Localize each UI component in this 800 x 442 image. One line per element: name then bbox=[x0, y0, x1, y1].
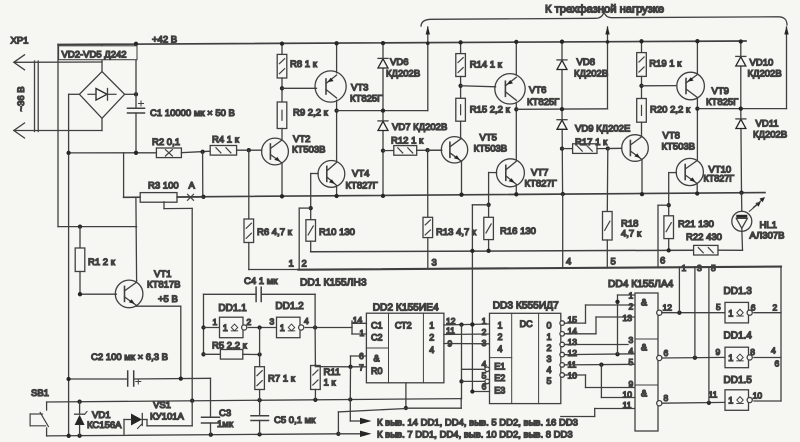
wire R3 wiper to VS1 column bbox=[163, 202, 165, 209]
svg-text:5: 5 bbox=[716, 302, 721, 312]
wire bridge bottom to XP1 bbox=[101, 118, 103, 130]
svg-text:А: А bbox=[189, 181, 196, 192]
harness r14 to DD4 pin13 bbox=[595, 317, 597, 334]
svg-text:3: 3 bbox=[629, 335, 634, 345]
wire to pin7 arrow bbox=[337, 412, 339, 434]
svg-text:DD1.4: DD1.4 bbox=[724, 331, 753, 342]
wire +42V top rail bbox=[58, 41, 746, 45]
bus wire 1 bbox=[678, 267, 680, 313]
svg-text:КТ825Г: КТ825Г bbox=[706, 97, 738, 108]
wire bridge right to +42 node bbox=[125, 93, 136, 95]
svg-text:R16 130: R16 130 bbox=[500, 226, 536, 237]
svg-text:КТ827Г: КТ827Г bbox=[704, 174, 735, 184]
svg-text:1: 1 bbox=[498, 321, 503, 331]
svg-text:1 к: 1 к bbox=[324, 378, 337, 389]
svg-text:8: 8 bbox=[664, 393, 669, 403]
svg-text:1: 1 bbox=[629, 291, 634, 301]
svg-text:DD1.1: DD1.1 bbox=[218, 303, 247, 314]
svg-text:1: 1 bbox=[289, 259, 294, 270]
svg-text:0: 0 bbox=[547, 321, 552, 331]
svg-text:1: 1 bbox=[482, 316, 487, 326]
svg-text:1: 1 bbox=[429, 321, 434, 331]
svg-text:КТ503В: КТ503В bbox=[474, 144, 508, 155]
svg-text:R1 2 к: R1 2 к bbox=[88, 257, 116, 268]
svg-text:КТ817В: КТ817В bbox=[147, 280, 181, 291]
svg-text:2: 2 bbox=[498, 332, 503, 342]
svg-text:КТ503В: КТ503В bbox=[292, 145, 326, 156]
svg-text:R14 1 к: R14 1 к bbox=[470, 60, 503, 71]
svg-text:R10 130: R10 130 bbox=[319, 227, 355, 238]
svg-text:9: 9 bbox=[716, 347, 721, 357]
svg-text:XP1: XP1 bbox=[11, 36, 29, 47]
wire VT1 emitter +5V bbox=[135, 305, 137, 308]
resistor R17 bbox=[562, 148, 573, 150]
svg-text:2: 2 bbox=[629, 302, 634, 312]
wire VT4 base node bbox=[310, 174, 312, 220]
phase arrow 1 bbox=[427, 27, 429, 111]
wire R11 to DD2 R0 pins bbox=[315, 366, 350, 368]
svg-text:9: 9 bbox=[629, 379, 634, 389]
svg-text:R15 2,2 к: R15 2,2 к bbox=[470, 105, 511, 116]
svg-text:R8 1 к: R8 1 к bbox=[290, 59, 318, 70]
svg-text:VT2: VT2 bbox=[293, 134, 310, 145]
wire R3 left up bbox=[124, 196, 141, 198]
label VD2-VD5 Д242 bbox=[59, 46, 137, 60]
svg-text:VT7: VT7 bbox=[531, 168, 548, 179]
svg-text:DD2 К155ИЕ4: DD2 К155ИЕ4 bbox=[373, 303, 439, 314]
svg-text:VD7 КД202В: VD7 КД202В bbox=[392, 122, 447, 133]
svg-text:4: 4 bbox=[429, 345, 434, 355]
svg-text:5: 5 bbox=[611, 257, 616, 268]
svg-text:R20 2,2 к: R20 2,2 к bbox=[650, 105, 691, 116]
svg-text:VT5: VT5 bbox=[480, 133, 497, 144]
svg-text:2: 2 bbox=[247, 317, 252, 327]
svg-text:1: 1 bbox=[223, 323, 228, 333]
wire DD1.1 out column bbox=[259, 328, 261, 367]
wire line1 (R10..R22 common) bbox=[311, 250, 694, 252]
svg-text:К выв. 7 DD1, DD4, выв. 10 DD2: К выв. 7 DD1, DD4, выв. 10 DD2, выв. 8 D… bbox=[377, 430, 573, 441]
svg-text:КТ827Г: КТ827Г bbox=[525, 179, 557, 190]
wire +5V row bbox=[47, 399, 461, 402]
wire net 6 vertical bbox=[657, 205, 659, 267]
svg-text:3: 3 bbox=[482, 338, 487, 348]
svg-text:1: 1 bbox=[682, 263, 687, 273]
svg-text:2: 2 bbox=[429, 333, 434, 343]
svg-text:C1: C1 bbox=[371, 321, 383, 331]
svg-text:2: 2 bbox=[302, 259, 307, 270]
wire row y226 bbox=[58, 226, 137, 228]
svg-text:КУ101А: КУ101А bbox=[150, 412, 185, 423]
svg-text:DD1 К155ЛН3: DD1 К155ЛН3 bbox=[300, 278, 367, 289]
svg-text:4: 4 bbox=[629, 346, 634, 356]
svg-text:VD10: VD10 bbox=[750, 58, 774, 69]
svg-text:3: 3 bbox=[547, 354, 552, 364]
right frame wire bbox=[780, 267, 782, 401]
harness vertical to DD4 pin1 bbox=[617, 295, 619, 354]
svg-text:4: 4 bbox=[304, 316, 309, 326]
svg-text:VD11: VD11 bbox=[756, 119, 779, 130]
svg-text:12: 12 bbox=[568, 348, 578, 358]
svg-text:2: 2 bbox=[773, 303, 778, 313]
wire to pin14 arrow bbox=[349, 400, 351, 422]
svg-text:C2 100 мк × 6,3 В: C2 100 мк × 6,3 В bbox=[91, 352, 168, 363]
svg-text:VD2-VD5 Д242: VD2-VD5 Д242 bbox=[62, 50, 127, 61]
wire R3 right / test point A bbox=[177, 196, 203, 198]
svg-text:SB1: SB1 bbox=[31, 388, 49, 399]
bottom rail bbox=[47, 434, 339, 436]
harness DD4 pin11 tail bbox=[595, 408, 635, 410]
svg-text:R4 1 к: R4 1 к bbox=[212, 135, 240, 146]
svg-text:4: 4 bbox=[771, 346, 776, 356]
svg-text:&: & bbox=[374, 354, 380, 364]
harness r10 to DD4 pin9 bbox=[585, 375, 587, 388]
wire R4 to VT2 base bbox=[237, 149, 262, 151]
svg-text:КД202В: КД202В bbox=[748, 69, 782, 80]
svg-text:R12 1 к: R12 1 к bbox=[391, 136, 424, 147]
svg-text:1мк: 1мк bbox=[217, 419, 234, 430]
svg-text:C4 1 мк: C4 1 мк bbox=[244, 276, 278, 287]
svg-text:DC: DC bbox=[520, 319, 533, 329]
phase arrow 2 bbox=[607, 27, 609, 109]
brace bbox=[421, 12, 787, 26]
wire DD1.2 out up to C4 bbox=[314, 294, 316, 327]
svg-text:DD3 К555ИД7: DD3 К555ИД7 bbox=[493, 301, 559, 312]
svg-text:5: 5 bbox=[711, 263, 716, 273]
svg-text:&: & bbox=[641, 298, 647, 308]
svg-text:С1 10000 мк × 50 В: С1 10000 мк × 50 В bbox=[150, 108, 235, 119]
svg-text:Е3: Е3 bbox=[494, 386, 505, 396]
svg-text:2: 2 bbox=[547, 343, 552, 353]
svg-text:&: & bbox=[641, 343, 647, 353]
wire R2 row bbox=[69, 152, 157, 154]
svg-text:1: 1 bbox=[728, 353, 733, 363]
svg-text:5: 5 bbox=[629, 357, 634, 367]
wire bridge left down (minus) bbox=[69, 93, 80, 95]
svg-text:6: 6 bbox=[660, 256, 665, 267]
svg-text:6: 6 bbox=[751, 303, 756, 313]
svg-text:11: 11 bbox=[623, 400, 632, 410]
DD3 enable wiring bbox=[461, 325, 463, 399]
svg-text:R3 100: R3 100 bbox=[148, 181, 179, 192]
DD2 gnd pin stub bbox=[405, 383, 407, 408]
svg-text:3: 3 bbox=[432, 258, 437, 269]
svg-text:+5 В: +5 В bbox=[158, 294, 178, 305]
svg-text:VS1: VS1 bbox=[153, 400, 171, 411]
svg-text:1: 1 bbox=[213, 317, 218, 327]
svg-text:6: 6 bbox=[775, 359, 780, 369]
svg-text:R22 430: R22 430 bbox=[686, 232, 722, 243]
svg-text:2: 2 bbox=[482, 327, 487, 337]
svg-text:1: 1 bbox=[280, 323, 285, 333]
wire DD1.1 input column bbox=[203, 294, 205, 354]
svg-text:КТ825Г: КТ825Г bbox=[350, 94, 382, 105]
bus wire 3 bbox=[694, 267, 696, 358]
svg-text:VD9 КД202Е: VD9 КД202Е bbox=[575, 124, 630, 135]
svg-text:1: 1 bbox=[728, 396, 733, 406]
svg-text:КТ503В: КТ503В bbox=[662, 142, 696, 153]
wire VT1 collector column bbox=[135, 197, 138, 280]
svg-text:8: 8 bbox=[750, 347, 755, 357]
svg-text:6: 6 bbox=[664, 348, 669, 358]
svg-text:DD1.2: DD1.2 bbox=[275, 301, 304, 312]
svg-text:СТ2: СТ2 bbox=[395, 321, 412, 331]
svg-text:13: 13 bbox=[568, 337, 578, 347]
svg-text:R7 1 к: R7 1 к bbox=[268, 374, 296, 385]
svg-text:C2: C2 bbox=[371, 333, 383, 343]
svg-text:VT3: VT3 bbox=[351, 83, 368, 94]
svg-text:C5 0,1 мк: C5 0,1 мк bbox=[274, 415, 316, 426]
svg-text:14: 14 bbox=[568, 326, 578, 336]
svg-text:R6 4,7 к: R6 4,7 к bbox=[257, 227, 293, 238]
svg-text:R17 1 к: R17 1 к bbox=[575, 137, 608, 148]
svg-text:VT6: VT6 bbox=[529, 85, 546, 96]
svg-text:&: & bbox=[641, 389, 647, 399]
svg-text:КД202В: КД202В bbox=[753, 130, 787, 141]
wire VT7 base node bbox=[488, 173, 490, 218]
svg-text:R21 130: R21 130 bbox=[678, 219, 714, 230]
svg-text:Е2: Е2 bbox=[494, 373, 505, 383]
svg-text:DD1.5: DD1.5 bbox=[724, 375, 753, 386]
svg-text:11: 11 bbox=[709, 390, 718, 400]
svg-text:~36 В: ~36 В bbox=[16, 86, 27, 111]
svg-text:VT9: VT9 bbox=[712, 86, 729, 97]
svg-text:+42 В: +42 В bbox=[152, 35, 177, 46]
wire left vertical from rail bbox=[57, 45, 59, 227]
svg-text:R0: R0 bbox=[371, 366, 383, 376]
svg-text:VT1: VT1 bbox=[154, 269, 171, 280]
svg-text:C3: C3 bbox=[219, 408, 231, 419]
svg-text:КС156А: КС156А bbox=[87, 420, 122, 431]
bus wire 5 bbox=[708, 267, 710, 403]
svg-text:КД202В: КД202В bbox=[574, 69, 608, 80]
svg-text:R9 2,2 к: R9 2,2 к bbox=[293, 108, 329, 119]
capacitor C1 bbox=[135, 94, 137, 107]
wire XP1 pin upper bbox=[14, 61, 102, 63]
phase row 3 bbox=[697, 108, 786, 110]
svg-text:3: 3 bbox=[270, 317, 275, 327]
svg-text:КТ827Г: КТ827Г bbox=[346, 181, 378, 192]
svg-text:12: 12 bbox=[663, 303, 673, 313]
svg-text:4: 4 bbox=[498, 344, 503, 354]
wire R0 node down to +5V row bbox=[349, 367, 351, 400]
svg-text:VT8: VT8 bbox=[663, 131, 680, 142]
harness r11 branch to DD4 pin10 bbox=[600, 365, 602, 398]
svg-text:Е1: Е1 bbox=[494, 362, 505, 372]
svg-text:R19 1 к: R19 1 к bbox=[649, 59, 682, 70]
wire bold lower bus bbox=[249, 269, 299, 271]
svg-text:4: 4 bbox=[547, 365, 552, 375]
svg-text:1: 1 bbox=[547, 332, 552, 342]
harness r15 to DD4 pin2 bbox=[585, 305, 587, 323]
svg-text:VD6: VD6 bbox=[390, 57, 408, 68]
svg-text:3: 3 bbox=[697, 263, 702, 273]
svg-text:1: 1 bbox=[360, 328, 365, 338]
svg-text:VT4: VT4 bbox=[352, 169, 369, 180]
svg-text:10: 10 bbox=[623, 390, 633, 400]
wire VT10 base node bbox=[668, 173, 670, 216]
phase arrow 3 bbox=[786, 27, 788, 109]
wire +5V row corner up bbox=[460, 398, 463, 400]
phase row 1 bbox=[337, 110, 428, 112]
svg-text:К выв. 14 DD1, DD4, выв. 5 DD2: К выв. 14 DD1, DD4, выв. 5 DD2, выв. 16 … bbox=[377, 418, 578, 429]
svg-text:КТ825Г: КТ825Г bbox=[527, 97, 559, 108]
svg-text:R11: R11 bbox=[324, 367, 341, 378]
svg-text:DD4 К155ЛА4: DD4 К155ЛА4 bbox=[608, 279, 674, 290]
svg-text:4: 4 bbox=[566, 257, 571, 268]
svg-text:R13 4,7 к: R13 4,7 к bbox=[436, 227, 477, 238]
bridge rectifier VD2-VD5 bbox=[79, 72, 124, 119]
svg-text:10: 10 bbox=[753, 391, 763, 401]
wire bridge top to rail bbox=[101, 44, 103, 71]
svg-text:1: 1 bbox=[728, 308, 733, 318]
svg-text:5: 5 bbox=[547, 376, 552, 386]
phase row 2 bbox=[516, 108, 607, 111]
svg-text:АЛ307В: АЛ307В bbox=[750, 230, 785, 241]
svg-text:DD1.3: DD1.3 bbox=[724, 286, 753, 297]
svg-text:VD8: VD8 bbox=[577, 57, 595, 68]
wire R2R4 node down to rail bbox=[202, 152, 204, 197]
wire net 3 vertical bbox=[471, 205, 473, 392]
wire lower common rail bbox=[124, 193, 765, 198]
svg-text:4,7 к: 4,7 к bbox=[621, 229, 642, 240]
svg-text:13: 13 bbox=[623, 313, 633, 323]
wire XP1 pin lower bbox=[14, 130, 102, 132]
svg-text:7: 7 bbox=[359, 363, 364, 373]
svg-text:R2 0,1: R2 0,1 bbox=[152, 137, 180, 148]
svg-text:КД202В: КД202В bbox=[386, 69, 420, 80]
wire net 1 bbox=[298, 208, 300, 269]
